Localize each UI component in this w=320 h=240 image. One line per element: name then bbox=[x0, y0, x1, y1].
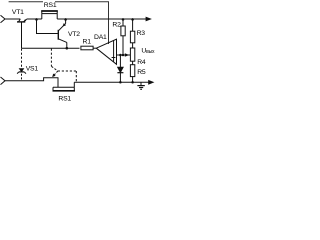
wire VT1 collector to node A bbox=[27, 18, 37, 20]
node wiper arrow R4 bbox=[125, 53, 130, 57]
transistor VT2 bbox=[58, 19, 67, 48]
svg-text:R2: R2 bbox=[112, 22, 121, 29]
svg-text:RS1: RS1 bbox=[44, 2, 57, 9]
thyristor VS1 bbox=[17, 69, 26, 74]
svg-text:DA1: DA1 bbox=[94, 34, 107, 41]
wire dashed mechanical link from VT2 collector line bbox=[50, 49, 52, 67]
wire RS1 to output arrow bbox=[57, 18, 146, 20]
svg-text:VT2: VT2 bbox=[68, 31, 80, 38]
wire node A to VT2 base bbox=[37, 19, 58, 33]
node junction R2 bottom bbox=[122, 54, 125, 57]
svg-text:VT1: VT1 bbox=[12, 9, 24, 16]
svg-text:R1: R1 bbox=[83, 39, 92, 46]
node junction R2 top bbox=[122, 18, 125, 21]
node A junction bbox=[35, 18, 38, 21]
wire R1 to op-amp bbox=[93, 47, 96, 49]
node output arrow bottom bbox=[148, 80, 154, 85]
node junction VD top bbox=[119, 54, 122, 57]
resistor R3 bbox=[130, 19, 134, 48]
resistor RS1 top shunt bbox=[41, 11, 58, 19]
wire dashed link to bottom rail bbox=[75, 71, 77, 82]
wire dashed VS1 to bottom wire bbox=[21, 74, 23, 81]
node VT2 collector junction bbox=[66, 47, 69, 50]
node junction R3 top bbox=[131, 18, 134, 21]
svg-text:R5: R5 bbox=[137, 69, 146, 76]
node input terminal top bbox=[1, 15, 6, 23]
svg-text:R4: R4 bbox=[137, 59, 146, 66]
resistor R2 bbox=[121, 19, 125, 55]
resistor R1 bbox=[81, 46, 93, 50]
wire dashed horizontal link bbox=[58, 70, 77, 72]
wire top supply rail to op-amp DA1 positive supply bbox=[9, 2, 109, 44]
node junction VD bottom bbox=[119, 81, 122, 84]
wire VT2 collector line to resistor R1 bbox=[22, 47, 80, 49]
svg-text:R3: R3 bbox=[137, 30, 146, 37]
svg-text:RS1: RS1 bbox=[58, 95, 71, 102]
svg-text:Uвых: Uвых bbox=[141, 47, 155, 55]
wire dashed link VT1 base to VS1 bbox=[21, 49, 23, 69]
node junction R5 bottom bbox=[131, 81, 134, 84]
wire input to VT1 bbox=[5, 18, 20, 20]
wire VT1 base down bbox=[21, 23, 23, 49]
wire bottom input to RS1 bbox=[5, 78, 58, 87]
resistor R4 potentiometer bbox=[130, 48, 134, 61]
wire DA1 input to divider bbox=[117, 54, 131, 56]
wire dashed diagonal link bbox=[51, 66, 57, 71]
ground bbox=[137, 82, 144, 89]
node minus marking bbox=[112, 57, 116, 59]
node VT2 emitter junction bbox=[64, 18, 67, 21]
wire R4 to R5 bbox=[132, 61, 134, 64]
resistor R5 bbox=[130, 65, 134, 83]
node adjust arrow on RS1 bbox=[54, 71, 58, 75]
wire RS1 to bottom rail bbox=[74, 82, 150, 87]
wire node A to resistor RS1 bbox=[37, 18, 42, 20]
node output arrow top bbox=[146, 17, 152, 22]
node input terminal bottom bbox=[1, 77, 6, 85]
resistor RS1 bottom shunt bbox=[53, 87, 76, 91]
op-amp DA1 bbox=[96, 39, 116, 64]
transistor VT1 bbox=[17, 19, 27, 22]
node label RS1 top bbox=[43, 0, 55, 8]
svg-text:VS1: VS1 bbox=[26, 65, 39, 72]
wire DA1 negative supply bbox=[113, 41, 115, 62]
diode VD zener bbox=[117, 55, 123, 82]
